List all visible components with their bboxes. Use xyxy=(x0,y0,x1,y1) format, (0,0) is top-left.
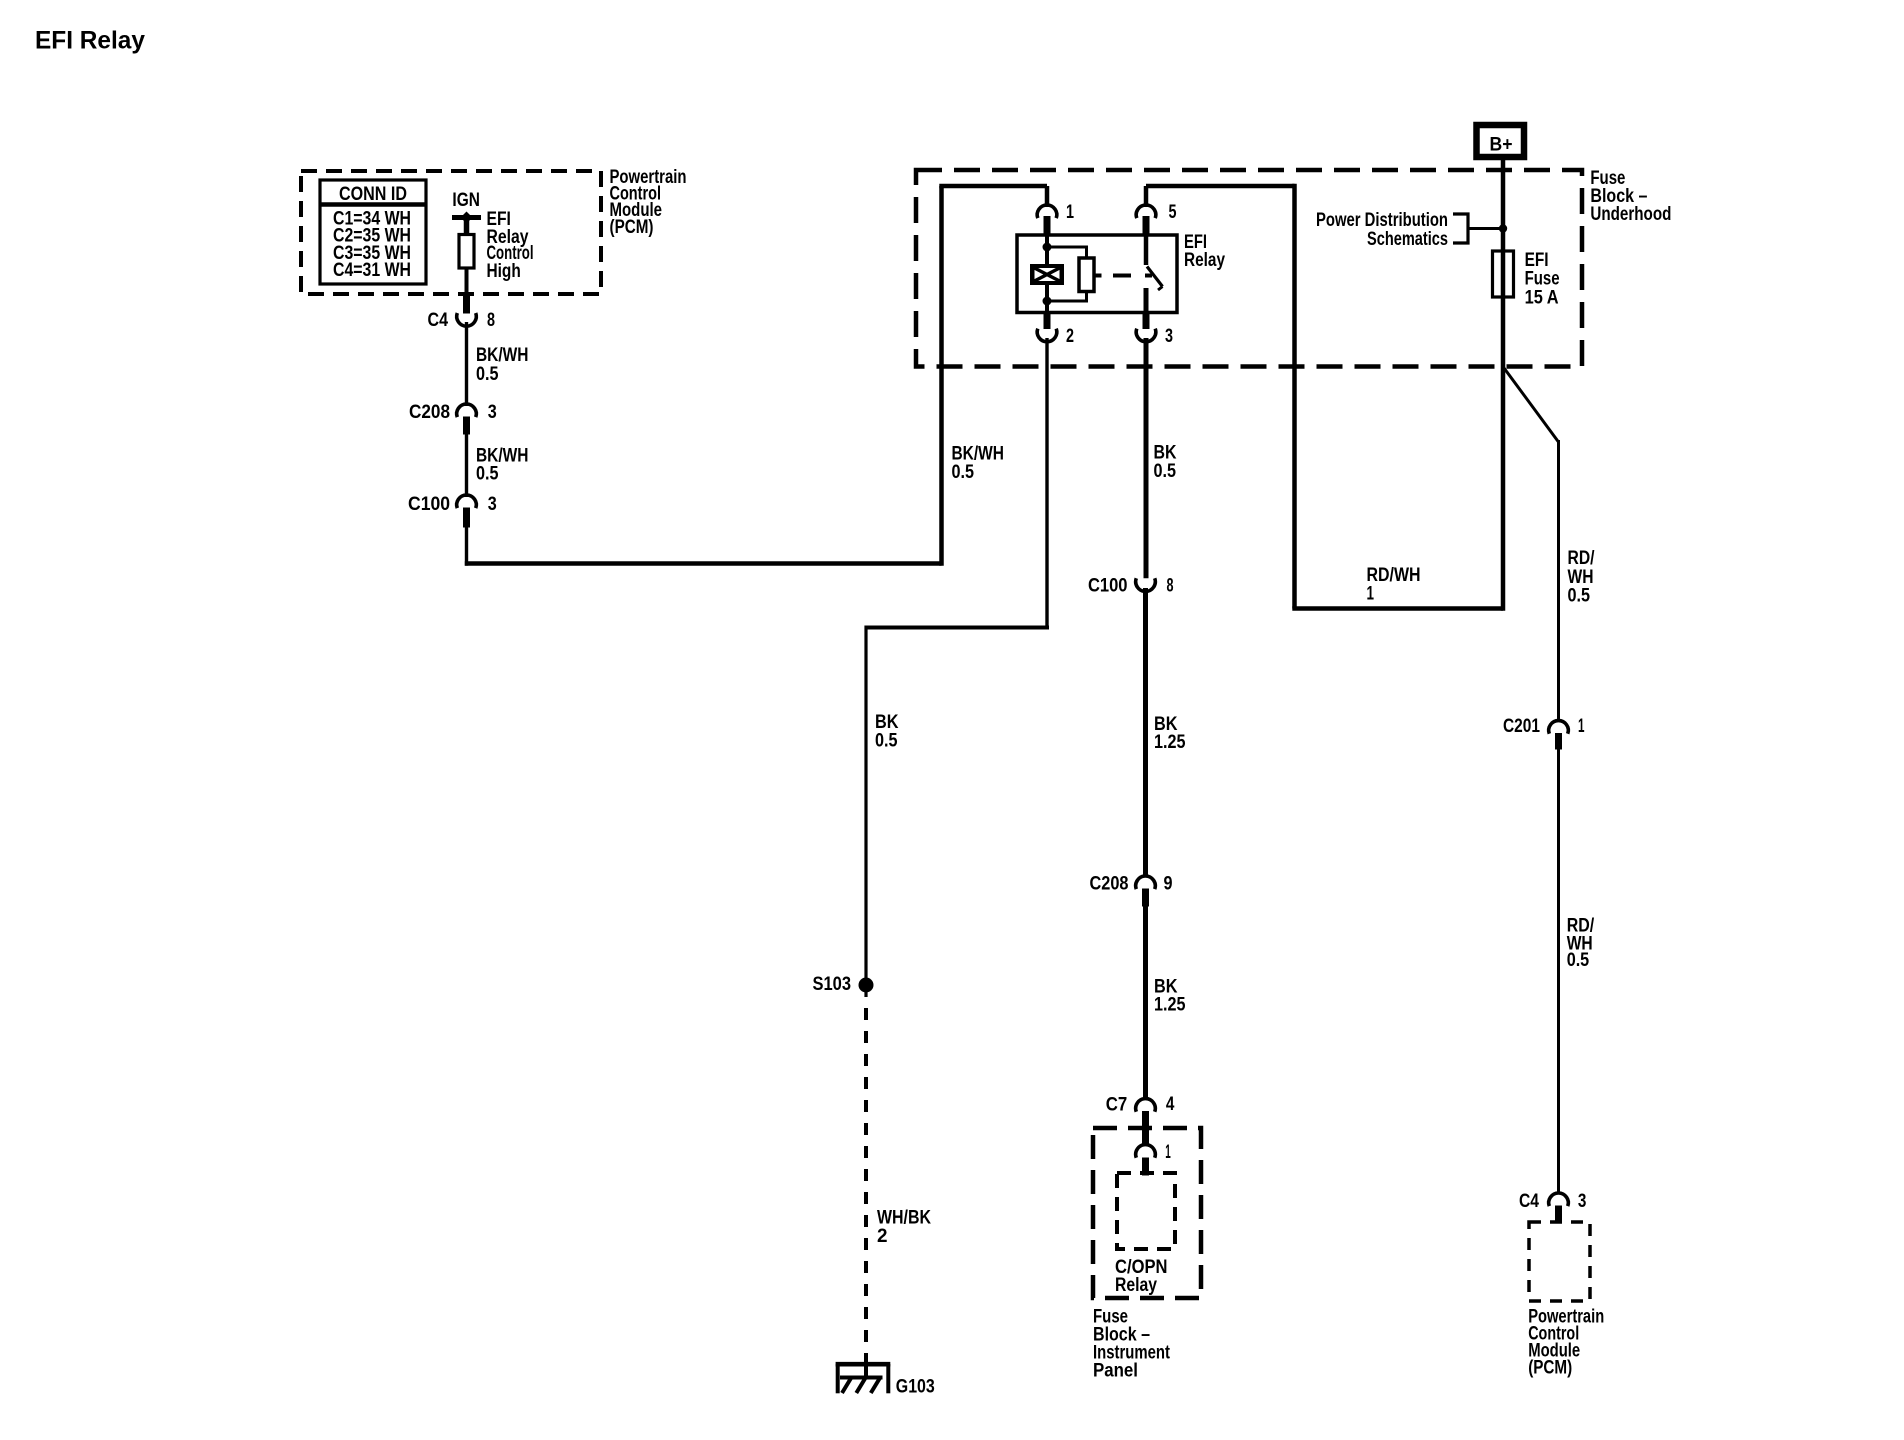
svg-text:0.5: 0.5 xyxy=(1568,586,1591,607)
svg-text:1: 1 xyxy=(1578,716,1585,737)
svg-text:IGN: IGN xyxy=(452,190,480,211)
wire dashed WH/BK 2 to ground xyxy=(864,985,867,997)
svg-text:G103: G103 xyxy=(896,1377,935,1398)
svg-text:5: 5 xyxy=(1169,202,1177,223)
wire pin5 to top run xyxy=(1144,186,1149,207)
junction node top xyxy=(1043,243,1052,252)
svg-text:8: 8 xyxy=(487,310,495,331)
wire IGN to resistor xyxy=(464,215,470,235)
svg-text:(PCM): (PCM) xyxy=(1528,1357,1572,1378)
wire riser down (RD/WH 1) xyxy=(1292,184,1297,609)
svg-text:3: 3 xyxy=(488,402,497,423)
relay moving contact to pin 3 xyxy=(1144,288,1149,313)
label RD/WH 0.5 (upper) xyxy=(1568,548,1596,607)
svg-text:C100: C100 xyxy=(1088,575,1128,596)
wire horizontal run to relay feed xyxy=(465,561,942,566)
relay coil (crossed box) xyxy=(1030,264,1064,285)
relay coil branch line pin1-pin2 xyxy=(1045,235,1049,313)
wire branch diagonal RD/WH 0.5 xyxy=(1504,368,1559,442)
label RD/WH 0.5 (lower) xyxy=(1567,916,1595,972)
wire resistor to PCM box edge xyxy=(465,268,469,296)
EFI Relay box xyxy=(1017,235,1177,313)
label BK 0.5 (S103 branch) xyxy=(875,712,899,752)
wire pin3 down (BK 0.5) xyxy=(1144,338,1149,578)
svg-text:2: 2 xyxy=(1066,326,1074,347)
Power Distribution Schematics reference bracket xyxy=(1316,210,1507,250)
wire C100-3 down to corner xyxy=(465,526,468,566)
resistor EFI Relay Control High driver xyxy=(459,235,474,269)
label BK 1.25 (C208 to C7) xyxy=(1154,976,1186,1015)
label BK/WH 0.5 (C208 to C100) xyxy=(476,446,529,485)
label BK 1.25 (C100 to C208) xyxy=(1154,714,1186,753)
svg-text:EFI Relay: EFI Relay xyxy=(35,27,145,55)
connector C4 pin 8 xyxy=(428,295,496,331)
wire BK/WH 0.5 (C4-8 to C208-3) xyxy=(465,322,468,406)
relay pin 3 connector xyxy=(1136,311,1173,347)
svg-text:1: 1 xyxy=(1165,1142,1171,1163)
svg-text:S103: S103 xyxy=(813,974,852,995)
wire bottom run to fuse xyxy=(1292,606,1503,611)
connector pin 1 (C/OPN relay) xyxy=(1136,1142,1171,1175)
PCM label (bottom) xyxy=(1528,1306,1604,1378)
connector C4 pin 3 (PCM) xyxy=(1519,1191,1586,1223)
svg-text:0.5: 0.5 xyxy=(1567,950,1590,971)
label Fuse Block - Instrument Panel xyxy=(1093,1306,1171,1381)
connector C201 pin 1 xyxy=(1503,716,1585,750)
EFI Fuse 15 A xyxy=(1493,250,1560,309)
svg-text:1: 1 xyxy=(1066,202,1074,223)
svg-text:0.5: 0.5 xyxy=(952,462,975,483)
svg-text:0.5: 0.5 xyxy=(875,731,898,752)
svg-text:0.5: 0.5 xyxy=(476,364,499,385)
wire top run to relay pin 1 xyxy=(939,184,1047,189)
wire pin2 down (BK 0.5) xyxy=(1045,338,1048,628)
svg-text:8: 8 xyxy=(1167,575,1174,596)
label EFI Relay xyxy=(1184,232,1225,271)
connector C208 pin 9 xyxy=(1090,873,1173,906)
wire drop to S103 xyxy=(864,626,867,986)
ground G103 xyxy=(836,1364,891,1393)
relay pin 1 connector xyxy=(1037,202,1074,236)
wire drop to pin 1 xyxy=(1045,186,1050,207)
svg-text:9: 9 xyxy=(1164,873,1173,894)
svg-text:C7: C7 xyxy=(1106,1094,1128,1115)
label BK/WH 0.5 (C4 to C208) xyxy=(476,345,529,385)
svg-text:Underhood: Underhood xyxy=(1590,204,1671,225)
connector C100 pin 3 xyxy=(408,494,497,528)
label RD/WH 1 xyxy=(1367,565,1421,605)
junction node bottom xyxy=(1043,297,1052,306)
svg-text:3: 3 xyxy=(488,494,497,515)
relay switch blade xyxy=(1147,267,1163,287)
svg-text:C4: C4 xyxy=(428,310,449,331)
label EFI Relay Control High xyxy=(487,209,534,282)
PCM (top-left) dashed module box xyxy=(301,171,601,294)
Fuse Block - Underhood dashed box xyxy=(916,170,1582,367)
svg-text:C4: C4 xyxy=(1519,1191,1539,1212)
svg-text:0.5: 0.5 xyxy=(1154,461,1177,482)
C/OPN Relay dashed box xyxy=(1117,1173,1175,1249)
IGN feed tap symbol xyxy=(452,190,481,224)
svg-text:15 A: 15 A xyxy=(1525,288,1559,309)
wire vertical up into fuse block xyxy=(939,186,944,566)
svg-text:RD/WH: RD/WH xyxy=(1367,565,1421,586)
svg-text:1.25: 1.25 xyxy=(1154,732,1186,753)
svg-text:(PCM): (PCM) xyxy=(610,217,654,238)
relay pin 2 connector xyxy=(1037,311,1074,347)
svg-text:C208: C208 xyxy=(409,402,450,423)
label C/OPN Relay xyxy=(1115,1257,1168,1296)
wire run left to S103 drop xyxy=(866,626,1049,630)
label BK/WH 0.5 (riser wire) xyxy=(952,444,1005,484)
svg-text:C208: C208 xyxy=(1090,873,1129,894)
wire B+ down through fuse to bottom run xyxy=(1501,160,1506,611)
svg-text:Relay: Relay xyxy=(1184,250,1225,271)
B+ battery feed box xyxy=(1477,125,1525,157)
svg-text:Relay: Relay xyxy=(1115,1275,1157,1296)
svg-text:C4=31 WH: C4=31 WH xyxy=(333,260,411,281)
svg-text:3: 3 xyxy=(1578,1191,1587,1212)
svg-text:2: 2 xyxy=(877,1226,888,1247)
relay pin 5 connector xyxy=(1136,202,1177,236)
wire BK 1.25 (C208-9 to C7-4) xyxy=(1143,905,1148,1100)
relay actuator dashed link xyxy=(1095,274,1153,278)
svg-text:4: 4 xyxy=(1166,1094,1175,1115)
relay armature loop xyxy=(1047,247,1094,301)
splice S103 xyxy=(859,978,874,993)
svg-text:B+: B+ xyxy=(1490,134,1513,155)
label WH/BK 2 xyxy=(877,1207,931,1246)
wire BK/WH 0.5 (C208-3 to C100-3) xyxy=(465,433,468,497)
PCM (bottom-right) dashed box xyxy=(1529,1222,1590,1301)
svg-text:3: 3 xyxy=(1165,326,1173,347)
svg-text:Panel: Panel xyxy=(1093,1360,1138,1381)
svg-text:CONN ID: CONN ID xyxy=(339,184,407,205)
svg-text:High: High xyxy=(487,261,521,282)
Fuse Block - Instrument Panel dashed box xyxy=(1093,1128,1201,1298)
wire BK 1.25 (C100-8 to C208-9) xyxy=(1143,588,1148,877)
label Fuse Block - Underhood xyxy=(1590,168,1671,225)
svg-text:C201: C201 xyxy=(1503,716,1540,737)
svg-text:C100: C100 xyxy=(408,494,450,515)
svg-text:0.5: 0.5 xyxy=(476,464,499,485)
connector C7 pin 4 xyxy=(1106,1094,1175,1146)
PCM module label (top) xyxy=(610,167,687,238)
svg-text:1.25: 1.25 xyxy=(1154,995,1186,1016)
wire top run pin5 to riser xyxy=(1146,184,1295,189)
svg-text:1: 1 xyxy=(1367,584,1375,605)
connector C100 pin 8 xyxy=(1088,575,1174,596)
svg-text:Schematics: Schematics xyxy=(1367,229,1448,250)
CONN ID table xyxy=(320,180,426,284)
label BK 0.5 (pin3 wire) xyxy=(1154,443,1177,483)
wire down to C201 xyxy=(1557,440,1560,721)
svg-text:BK/WH: BK/WH xyxy=(476,345,529,366)
wire RD/WH 0.5 (C201 to C4) xyxy=(1557,748,1560,1194)
relay fixed contact from pin 5 xyxy=(1144,235,1149,265)
connector C208 pin 3 xyxy=(409,402,497,434)
